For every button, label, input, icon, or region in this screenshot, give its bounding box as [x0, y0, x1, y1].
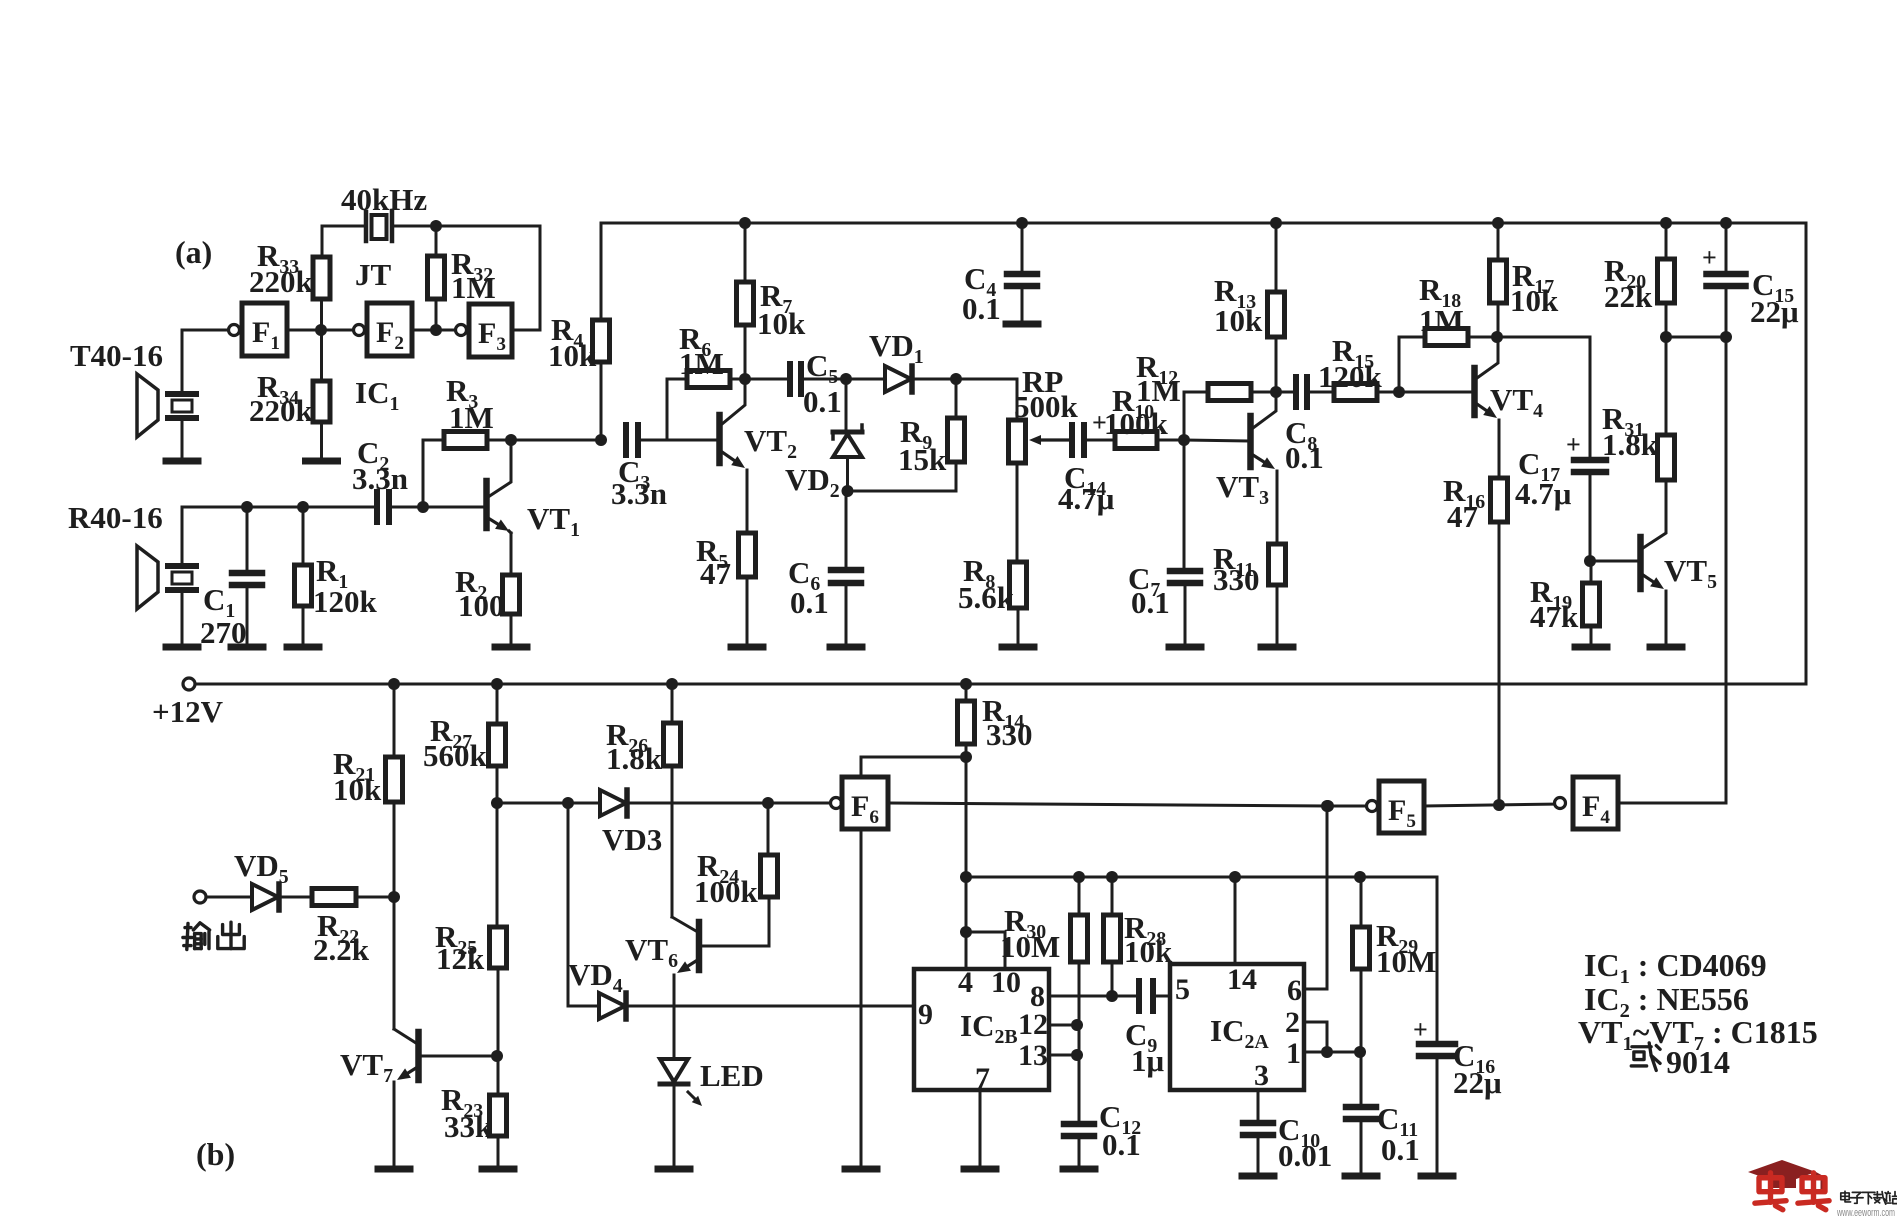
svg-text:12k: 12k	[436, 941, 485, 976]
svg-text:JT: JT	[355, 257, 392, 292]
svg-text:220k: 220k	[249, 393, 314, 428]
svg-text:+: +	[1413, 1015, 1428, 1044]
svg-text:0.1: 0.1	[790, 585, 829, 620]
svg-text:500k: 500k	[1014, 389, 1079, 424]
svg-text:22k: 22k	[1604, 279, 1653, 314]
svg-text:10k: 10k	[548, 338, 597, 373]
svg-text:22μ: 22μ	[1453, 1065, 1502, 1100]
svg-text:0.1: 0.1	[1381, 1132, 1420, 1167]
svg-text:10k: 10k	[757, 306, 806, 341]
svg-text:10k: 10k	[1214, 303, 1263, 338]
svg-text:1M: 1M	[451, 270, 496, 305]
svg-text:100k: 100k	[1104, 406, 1169, 441]
svg-text:4.7μ: 4.7μ	[1058, 481, 1115, 516]
svg-text:(a): (a)	[175, 234, 212, 270]
svg-text:22μ: 22μ	[1750, 294, 1799, 329]
svg-text:10: 10	[991, 966, 1021, 999]
svg-text:330: 330	[1213, 562, 1260, 597]
svg-text:6: 6	[1287, 974, 1302, 1007]
svg-text:+: +	[1566, 430, 1581, 459]
svg-text:www.eeworm.com: www.eeworm.com	[1836, 1207, 1895, 1217]
svg-text:10k: 10k	[1124, 934, 1173, 969]
svg-text:+: +	[1702, 243, 1717, 272]
svg-text:R40-16: R40-16	[68, 500, 163, 535]
svg-text:LED: LED	[700, 1058, 764, 1093]
svg-text:0.1: 0.1	[1131, 585, 1170, 620]
svg-text:T40-16: T40-16	[70, 338, 163, 373]
svg-text:220k: 220k	[249, 264, 314, 299]
svg-text:9: 9	[918, 998, 933, 1031]
svg-text:10k: 10k	[1510, 283, 1559, 318]
svg-text:1M: 1M	[679, 346, 724, 381]
svg-text:VD3: VD3	[602, 822, 662, 857]
svg-text:1M: 1M	[1136, 373, 1181, 408]
svg-text:4: 4	[958, 966, 973, 999]
svg-text:15k: 15k	[898, 442, 947, 477]
svg-text:0.1: 0.1	[1285, 440, 1324, 475]
svg-text:(b): (b)	[196, 1136, 235, 1172]
svg-text:0.1: 0.1	[962, 291, 1001, 326]
svg-text:12: 12	[1018, 1008, 1048, 1041]
svg-text:0.01: 0.01	[1278, 1138, 1332, 1173]
svg-text:1μ: 1μ	[1131, 1043, 1165, 1078]
svg-text:1.8k: 1.8k	[606, 741, 663, 776]
svg-text:1M: 1M	[449, 400, 494, 435]
svg-text:1M: 1M	[1419, 303, 1464, 338]
svg-text:3: 3	[1254, 1059, 1269, 1092]
svg-text:9014: 9014	[1666, 1044, 1730, 1080]
svg-text:33k: 33k	[444, 1109, 493, 1144]
svg-text:3.3n: 3.3n	[352, 461, 408, 496]
svg-text:0.1: 0.1	[1102, 1127, 1141, 1162]
svg-text:4.7μ: 4.7μ	[1515, 476, 1572, 511]
svg-text:2: 2	[1285, 1006, 1300, 1039]
svg-text:1.8k: 1.8k	[1602, 427, 1659, 462]
svg-text:5: 5	[1175, 973, 1190, 1006]
svg-text:2.2k: 2.2k	[313, 932, 370, 967]
svg-text:10M: 10M	[1000, 929, 1060, 964]
svg-text:10M: 10M	[1376, 944, 1436, 979]
svg-text:10k: 10k	[333, 772, 382, 807]
svg-text:14: 14	[1227, 963, 1257, 996]
svg-text:47: 47	[1447, 499, 1478, 534]
svg-text:270: 270	[200, 615, 247, 650]
svg-text:40kHz: 40kHz	[341, 182, 427, 217]
svg-text:120k: 120k	[313, 584, 378, 619]
svg-text:560k: 560k	[423, 738, 488, 773]
svg-text:47: 47	[700, 556, 731, 591]
svg-text:1: 1	[1286, 1037, 1301, 1070]
svg-text:100k: 100k	[694, 874, 759, 909]
svg-text:47k: 47k	[1530, 599, 1579, 634]
svg-text:7: 7	[975, 1062, 990, 1095]
svg-text:100: 100	[458, 588, 505, 623]
svg-text:13: 13	[1018, 1039, 1048, 1072]
svg-text:120k: 120k	[1318, 359, 1383, 394]
svg-text:3.3n: 3.3n	[611, 476, 667, 511]
svg-text:+12V: +12V	[152, 694, 224, 729]
svg-text:330: 330	[986, 717, 1033, 752]
svg-text:5.6k: 5.6k	[958, 580, 1015, 615]
svg-text:0.1: 0.1	[803, 384, 842, 419]
